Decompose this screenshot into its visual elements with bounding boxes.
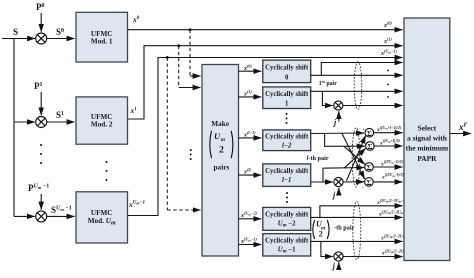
UFMC Mod. Um box	[76, 192, 128, 243]
wire shift0 upper branch	[321, 63, 402, 76]
label x(Um-2) mid	[240, 211, 258, 220]
label bp1	[376, 198, 408, 206]
wire S input	[2, 38, 35, 40]
dots between rows left	[40, 144, 42, 164]
wire multiplier3 to UFMC3	[47, 215, 75, 217]
wire after J3	[343, 256, 402, 258]
wire after J2 to S4	[343, 181, 364, 183]
svg-text:l-th pair: l-th pair	[307, 155, 329, 162]
wire shift l-2 lower branch	[325, 134, 365, 147]
wire shift l-2 out top	[311, 132, 364, 135]
wire S to multiplier 3	[14, 215, 35, 217]
multiplier J3	[334, 252, 343, 261]
label bp2	[378, 209, 410, 217]
label j3	[331, 262, 336, 271]
label x(l) mid	[243, 167, 252, 176]
svg-text:Cyclically shift: Cyclically shift	[265, 91, 309, 98]
svg-text:l−1: l−1	[282, 177, 291, 184]
svg-text:PAPR: PAPR	[417, 154, 437, 163]
wire diag l-2b to S3	[344, 146, 365, 164]
multiplier X2	[36, 117, 47, 128]
Cyclically shift Um-2 box	[263, 207, 311, 230]
svg-text:Cyclically shift: Cyclically shift	[265, 212, 309, 219]
label S1 out	[376, 125, 402, 133]
label xF out	[458, 122, 468, 132]
svg-text:m: m	[221, 137, 226, 143]
summator S4	[365, 178, 374, 187]
svg-text:pairs: pairs	[213, 162, 229, 171]
dots make inputs	[190, 149, 192, 160]
wire xUm-1 line	[128, 58, 403, 216]
svg-text:Select: Select	[418, 124, 437, 133]
Cyclically shift Um-1 box	[263, 234, 311, 256]
svg-text:1: 1	[285, 100, 289, 107]
UFMC Mod. 1 box	[76, 12, 128, 62]
Make pairs box	[202, 65, 239, 257]
junction x0	[189, 28, 192, 31]
dots shift col 1	[286, 113, 288, 124]
svg-text:+: +	[363, 140, 366, 145]
dots 1st pair right	[387, 70, 389, 98]
label 1st pair	[319, 79, 337, 87]
svg-text:Mod. 1: Mod. 1	[91, 38, 113, 46]
svg-text:0: 0	[285, 74, 289, 81]
dots shift col 2	[286, 192, 288, 203]
wire S3 to select	[373, 166, 402, 168]
wire S1 to select	[374, 132, 403, 134]
wire diag l-2 to S4	[342, 134, 365, 179]
svg-text:−: −	[362, 170, 365, 175]
multiplier J1	[334, 101, 343, 110]
wire shift1 to multiplier j1	[322, 91, 332, 105]
label x1	[130, 106, 137, 115]
label x(0) right	[383, 21, 392, 30]
label S Um-1	[51, 205, 72, 215]
wire shift0 out direct	[311, 74, 403, 76]
dots between UFMC boxes	[106, 161, 108, 181]
label x0	[132, 15, 140, 24]
dashed ellipse 2	[352, 128, 360, 187]
wire after J1	[343, 105, 403, 107]
Cyclically shift 1 box	[263, 87, 311, 109]
junction xUm-1	[166, 56, 169, 59]
summator S1	[365, 128, 374, 137]
label S0	[56, 27, 64, 37]
wire shift l-1 out to J2	[311, 181, 333, 183]
dashed tap 2 to Make	[179, 46, 201, 88]
label P1	[34, 81, 43, 91]
svg-text:+: +	[362, 161, 365, 166]
UFMC Mod. 2 box	[76, 97, 128, 144]
label l-th pair	[307, 155, 329, 162]
label P0	[36, 2, 45, 12]
wire make to shift l-1	[239, 174, 262, 176]
summator S2	[366, 142, 375, 151]
svg-text:Cyclically shift: Cyclically shift	[265, 65, 309, 72]
wire diag J2 to S1	[347, 136, 366, 181]
wire make to shift l-2	[239, 137, 262, 139]
wire x0 line	[128, 29, 403, 31]
dashed tap 3 to Make	[167, 58, 200, 211]
node S label	[13, 27, 18, 37]
label x(0) mid	[243, 64, 252, 73]
label S4 out	[381, 172, 405, 180]
wire shift l-1 upper branch	[323, 168, 364, 183]
svg-text:1st pair: 1st pair	[319, 79, 337, 87]
svg-text:UFMC: UFMC	[91, 209, 113, 217]
svg-text:Cyclically shift: Cyclically shift	[265, 134, 309, 141]
multiplier X1	[36, 33, 47, 44]
wire P1 arrow	[40, 92, 42, 115]
label S3 out	[380, 159, 404, 167]
wire x1 line	[128, 46, 403, 119]
svg-text:−: −	[362, 185, 365, 190]
multiplier X3	[36, 211, 47, 222]
label j2	[331, 191, 336, 200]
svg-text:Make: Make	[211, 119, 230, 128]
wire j3 arrow	[338, 262, 340, 270]
svg-text:Cyclically shift: Cyclically shift	[265, 238, 309, 245]
svg-text:Σ: Σ	[367, 163, 372, 172]
wire shift1 out direct	[311, 90, 403, 92]
label j1	[332, 118, 337, 127]
wire shift Um-1 direct	[311, 240, 403, 242]
label x Um-1	[128, 200, 145, 209]
wire P0 arrow	[40, 13, 42, 32]
svg-text:l−2: l−2	[282, 143, 292, 150]
label bp4	[381, 248, 408, 256]
label x(Um-1) mid	[240, 237, 258, 246]
svg-text:Σ: Σ	[366, 178, 371, 187]
wire make to shift Um-2	[239, 218, 262, 220]
wire shift Um-1 to J3	[321, 241, 333, 256]
plus minus marks	[362, 127, 367, 191]
wire S2 to select	[374, 145, 402, 147]
wire j2 arrow	[338, 188, 340, 194]
svg-text:S: S	[13, 27, 18, 37]
SELECT BOX	[404, 18, 450, 261]
svg-text:−: −	[363, 150, 366, 155]
svg-text:UFMC: UFMC	[91, 30, 113, 38]
label x(Um-1) right	[380, 49, 398, 58]
label x(l-1) mid	[243, 130, 256, 139]
wire S4 to select	[373, 181, 402, 183]
dashed tap 1 to Make	[190, 30, 201, 76]
svg-text:Um −1: Um −1	[278, 247, 296, 255]
wire make to shift0	[239, 70, 262, 72]
label x(1) right	[383, 37, 392, 46]
wire multiplier1 to UFMC1	[47, 38, 75, 40]
Cyclically shift 0 box	[263, 60, 311, 83]
summator S3	[365, 163, 374, 172]
svg-text:Σ: Σ	[367, 142, 372, 151]
wire make to shift1	[239, 96, 262, 98]
svg-text:2: 2	[319, 230, 323, 239]
wire shift Um-2 direct	[311, 216, 403, 218]
wire S vertical bus	[13, 39, 15, 217]
label Um/2-th pair	[313, 220, 355, 240]
wire P3 arrow	[40, 194, 42, 210]
wire shift Um-2 upper branch	[320, 206, 403, 218]
svg-text:a signal with: a signal with	[407, 134, 447, 143]
svg-text:Cyclically shift: Cyclically shift	[265, 168, 309, 175]
svg-text:2: 2	[219, 146, 224, 156]
svg-text:the minimum: the minimum	[406, 144, 449, 153]
wire S to multiplier 2	[14, 121, 35, 123]
svg-text:-th pair: -th pair	[334, 225, 355, 232]
label x(1) mid	[243, 89, 252, 98]
wire diag l-1 to S2	[344, 148, 366, 168]
svg-text:+: +	[362, 176, 365, 181]
wire j1 arrow	[338, 111, 340, 121]
wire make to shift Um-1	[239, 244, 262, 246]
multiplier J2	[334, 177, 343, 186]
Cyclically shift l-2 box	[263, 130, 311, 151]
dashed ellipse 1	[354, 62, 362, 110]
svg-text:+: +	[363, 127, 366, 132]
svg-text:Σ: Σ	[367, 129, 372, 138]
svg-text:Um −2: Um −2	[278, 221, 296, 229]
junction x1	[177, 44, 180, 47]
wire multiplier2 to UFMC2	[47, 121, 75, 123]
wire output	[450, 133, 471, 135]
svg-text:Mod. 2: Mod. 2	[91, 121, 113, 129]
label bp3	[380, 233, 412, 241]
dashed ellipse 3	[353, 202, 361, 260]
label P Um-1	[28, 183, 49, 193]
label S1	[56, 110, 64, 120]
Cyclically shift l-1 box	[263, 164, 311, 187]
label S2 out	[379, 138, 400, 146]
